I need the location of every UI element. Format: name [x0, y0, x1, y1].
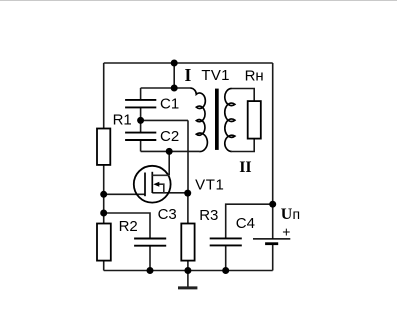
- transformer TV1 core: [215, 89, 219, 150]
- wire left rail middle: [103, 165, 105, 224]
- capacitor C2: [125, 133, 156, 140]
- resistor R1: [97, 129, 110, 165]
- transistor VT1 substrate lead: [158, 184, 164, 193]
- junction gate node: [100, 191, 107, 198]
- wire battery node to C4: [226, 204, 273, 238]
- battery Up positive plate: [253, 238, 290, 240]
- junction R3 ground: [184, 267, 191, 274]
- wire source lead: [152, 192, 187, 194]
- junction battery top: [269, 201, 276, 208]
- wire ground stem: [187, 271, 189, 287]
- junction tank bottom drain: [166, 148, 173, 155]
- svg-text:R2: R2: [119, 218, 138, 235]
- wire left rail lower: [103, 261, 105, 271]
- wire gate lead: [104, 193, 145, 195]
- svg-text:R3: R3: [199, 207, 218, 224]
- svg-text:VT1: VT1: [195, 177, 224, 194]
- junction C3 branch: [100, 210, 107, 217]
- junction C3 ground: [147, 267, 154, 274]
- ground symbol: [178, 286, 197, 289]
- junction source node: [184, 190, 191, 197]
- svg-text:C4: C4: [236, 215, 255, 232]
- wire top rail to tank drop: [173, 63, 175, 88]
- wire secondary bottom lead: [232, 139, 254, 152]
- capacitor C4: [210, 238, 242, 245]
- resistor R3: [181, 224, 194, 261]
- svg-text:I: I: [185, 65, 192, 85]
- svg-text:U: U: [281, 206, 293, 223]
- junction tank top: [171, 85, 178, 92]
- junction C4 ground: [222, 267, 229, 274]
- wire drain riser: [168, 151, 170, 175]
- transistor VT1 body circle: [134, 166, 171, 203]
- svg-text:II: II: [239, 159, 251, 176]
- svg-text:+: +: [282, 223, 290, 239]
- svg-text:TV1: TV1: [201, 67, 229, 84]
- wire right rail lower: [272, 245, 274, 271]
- junction capacitive tap: [137, 117, 144, 124]
- wire C3 to bottom rail: [149, 246, 151, 270]
- svg-text:C2: C2: [160, 128, 179, 145]
- svg-text:C1: C1: [160, 96, 179, 113]
- wire R3 to bottom rail: [187, 261, 189, 271]
- wire source to R3: [187, 193, 189, 223]
- wire left rail upper: [103, 63, 105, 129]
- junction top rail: [171, 60, 178, 67]
- transistor VT1 channel bar: [151, 172, 153, 193]
- svg-text:Rн: Rн: [245, 68, 264, 85]
- wire bottom rail: [104, 270, 273, 272]
- resistor Rn load: [248, 101, 261, 139]
- svg-text:C3: C3: [158, 206, 177, 223]
- wire tank bottom node: [141, 150, 200, 152]
- svg-text:R1: R1: [113, 112, 132, 129]
- wire secondary top lead: [232, 89, 255, 102]
- battery Up negative plate: [265, 242, 278, 245]
- wire right rail upper: [272, 63, 274, 239]
- capacitor C1: [125, 100, 156, 108]
- transistor VT1 substrate arrow: [153, 182, 159, 187]
- wire tank top node: [141, 87, 191, 89]
- resistor R2: [97, 224, 111, 261]
- transistor VT1 gate bar: [144, 173, 146, 197]
- transformer TV1 secondary winding: [225, 89, 235, 152]
- wire tap to source horizontal: [141, 119, 188, 121]
- wire gate node to C3: [104, 213, 150, 238]
- svg-text:п: п: [293, 206, 301, 222]
- wire C2 bottom lead: [140, 140, 142, 151]
- wire C4 to bottom rail: [225, 246, 227, 270]
- wire C1 top lead: [140, 88, 142, 100]
- wire C1-C2 link: [140, 107, 142, 132]
- wire top rail: [104, 62, 273, 64]
- capacitor C3: [134, 239, 166, 246]
- transistor VT1 drain lead: [152, 174, 169, 176]
- wire tap to source vertical: [187, 120, 189, 193]
- transformer TV1 primary winding: [190, 88, 207, 152]
